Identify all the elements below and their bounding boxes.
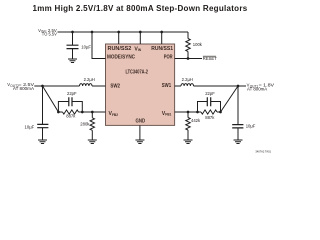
node feedback left end [57, 111, 60, 114]
node 280k tap [91, 111, 94, 114]
wire cap to ground [72, 49, 74, 59]
wire 442k to ground [187, 130, 189, 140]
wire VIN top rail [58, 31, 189, 33]
capacitor 10uF input [67, 44, 92, 49]
node 22pF/887k right junction [81, 111, 84, 114]
svg-text:3407A2 TA01: 3407A2 TA01 [255, 149, 271, 153]
svg-text:AT 800mA: AT 800mA [13, 86, 34, 91]
node rail/MODE junction [91, 31, 94, 34]
pin label VFB1 [162, 111, 172, 117]
resistor 100k [186, 39, 203, 52]
node VOUT1 [237, 85, 240, 88]
node feedback right end [219, 111, 222, 114]
svg-text:10µF: 10µF [246, 123, 256, 128]
net label RESET (active low) [203, 56, 217, 61]
wire GND pin down [139, 125, 141, 140]
wire SW2 pin to inductor [92, 85, 106, 87]
pin label POR [164, 55, 173, 61]
wire inductor to VOUT2 [34, 85, 79, 87]
wire VOUT2 to output cap [42, 86, 44, 124]
svg-text:280k: 280k [80, 121, 90, 126]
net label VOUT2 [7, 82, 34, 91]
svg-text:442k: 442k [191, 118, 201, 123]
node rail/RUN/SS1 junction [160, 31, 163, 34]
wire diagonal VOUT2 to feedback [43, 86, 59, 112]
pin label GND [136, 119, 146, 125]
title [33, 4, 248, 13]
wire 100k to POR node [187, 52, 189, 59]
svg-text:LTC3407A-2: LTC3407A-2 [126, 70, 149, 76]
wire tap down to 442k [187, 112, 189, 118]
wire cap to ground [42, 128, 44, 140]
svg-text:22pF: 22pF [67, 91, 77, 96]
capacitor 10uF output 2 [25, 124, 49, 129]
svg-text:MODE/SYNC: MODE/SYNC [107, 54, 135, 60]
svg-text:2.2µH: 2.2µH [84, 77, 95, 82]
svg-text:100k: 100k [193, 42, 203, 47]
wire cap to ground [237, 128, 239, 140]
svg-text:10µF: 10µF [81, 44, 91, 49]
svg-text:POR: POR [164, 55, 173, 61]
svg-text:AT 800mA: AT 800mA [247, 87, 267, 92]
watermark figure number [255, 149, 271, 153]
ground output cap 1 [234, 140, 243, 144]
svg-text:SW2: SW2 [110, 83, 120, 89]
node POR junction [187, 57, 190, 60]
pin label VIN [134, 46, 141, 52]
resistor 887k left [63, 110, 79, 119]
node 22pF/887k left junction [196, 111, 199, 114]
pin label MODE/SYNC [107, 54, 135, 60]
svg-text:2.2µH: 2.2µH [182, 77, 193, 82]
wire 280k to ground [91, 130, 93, 140]
pin label VFB2 [109, 111, 119, 117]
svg-text:RESET: RESET [203, 56, 217, 61]
wire rail drop to RUN/SS1 [161, 32, 163, 44]
svg-text:22pF: 22pF [205, 91, 215, 96]
resistor 442k [186, 118, 201, 131]
inductor 2.2uH left [80, 77, 95, 86]
ground 442k [184, 140, 193, 144]
wire inductor to VOUT1 [194, 85, 247, 87]
wire feedback line right [175, 111, 221, 113]
pin label SW2 [110, 83, 120, 89]
svg-text:887k: 887k [66, 114, 76, 119]
node VOUT2 [41, 85, 44, 88]
pin label RUN/SS2 [108, 46, 132, 52]
capacitor 10uF output 1 [232, 123, 256, 128]
wire rail drop to VIN pin [139, 32, 141, 44]
wire tap down to 280k [91, 112, 93, 118]
pin label SW1 [162, 83, 171, 89]
wire SW1 pin to inductor [175, 85, 181, 87]
node rail/RUN/SS2 junction [117, 31, 120, 34]
node 442k tap [187, 111, 190, 114]
ground input cap [68, 59, 77, 63]
svg-text:887k: 887k [205, 115, 215, 120]
svg-text:10µF: 10µF [25, 125, 35, 130]
svg-text:RUN/SS2: RUN/SS2 [108, 46, 132, 52]
IC U1 LTC3407A-2 body [106, 44, 175, 125]
wire rail drop to input capacitor [72, 32, 74, 45]
IC part number LTC3407A-2 [126, 70, 149, 76]
inductor 2.2uH right [181, 77, 194, 86]
ground output cap 2 [38, 140, 47, 144]
svg-text:1mm High 2.5V/1.8V at 800mA St: 1mm High 2.5V/1.8V at 800mA Step-Down Re… [33, 4, 248, 13]
svg-text:TO 5.5V: TO 5.5V [42, 31, 57, 36]
wire diagonal VOUT1 to feedback [221, 86, 239, 112]
net label VOUT1 [247, 83, 275, 92]
capacitor 22pF left (parallel loop) [58, 91, 82, 112]
node rail/VIN junction [139, 31, 142, 34]
pin label RUN/SS1 [151, 46, 173, 52]
wire rail drop to RUN/SS2 [118, 32, 120, 44]
wire rail corner down to 100k [187, 32, 189, 39]
node rail/cap junction [71, 31, 74, 34]
wire VOUT1 to output cap [237, 86, 239, 125]
node VIN input label [38, 28, 57, 37]
svg-text:GND: GND [136, 119, 146, 125]
wire rail drop to MODE/SYNC [92, 32, 106, 59]
resistor 887k right [201, 110, 217, 120]
resistor 280k [80, 118, 94, 131]
capacitor 22pF right (parallel loop) [198, 91, 221, 112]
ground GND pin [135, 140, 144, 144]
wire feedback line left [58, 111, 105, 113]
wire POR pin to RESET [175, 58, 202, 60]
svg-text:RUN/SS1: RUN/SS1 [151, 46, 173, 52]
ground 280k [88, 140, 97, 144]
svg-text:SW1: SW1 [162, 83, 171, 89]
